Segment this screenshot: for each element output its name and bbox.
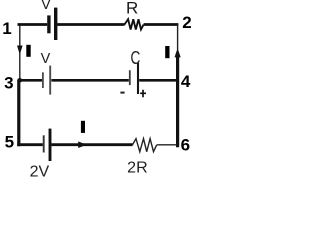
resistor 2R zigzag	[132, 139, 156, 152]
svg-text:C: C	[131, 48, 141, 68]
wire top-right segment	[144, 23, 179, 26]
battery 2V left short plate	[43, 135, 45, 152]
svg-text:5: 5	[5, 133, 14, 152]
wire middle-right segment	[139, 79, 176, 82]
label I (left)	[26, 45, 30, 57]
capacitor minus sign	[120, 92, 124, 94]
svg-text:V: V	[41, 51, 51, 67]
wire right thin vertical (node2 down)	[177, 25, 179, 50]
wire bottom-middle segment	[52, 143, 133, 146]
svg-text:4: 4	[181, 72, 191, 91]
svg-text:R: R	[126, 0, 138, 18]
current arrow I (bottom, right)	[78, 141, 86, 148]
wire middle-center segment	[51, 79, 128, 82]
capacitor C left plate	[129, 70, 131, 85]
svg-text:2V: 2V	[30, 163, 50, 179]
wire top-middle segment	[57, 23, 124, 26]
capacitor plus sign	[140, 90, 146, 98]
wire middle-left segment	[19, 79, 42, 82]
current arrow I (right, up)	[175, 48, 181, 57]
capacitor C right plate	[137, 63, 139, 94]
svg-text:6: 6	[181, 135, 190, 154]
battery V (middle) right tall plate	[49, 66, 51, 95]
current arrow I (left, down)	[17, 46, 23, 55]
svg-text:3: 3	[4, 74, 13, 93]
svg-text:1: 1	[2, 19, 11, 38]
wire right thick vertical (arrow to node6)	[176, 57, 179, 148]
label I (bottom)	[81, 121, 85, 133]
svg-text:2: 2	[182, 13, 191, 32]
wire bottom-right segment	[157, 144, 177, 146]
battery V (top) left short plate	[47, 15, 50, 33]
label I (right)	[165, 46, 169, 58]
node 3 junction dot	[18, 78, 23, 83]
wire left thin vertical (node1 to node3)	[19, 26, 21, 80]
wire left thick vertical (node3 to node5)	[17, 80, 20, 147]
battery 2V right tall plate	[49, 129, 52, 161]
wire bottom-left segment	[17, 143, 43, 146]
battery V (middle) left short plate	[42, 72, 44, 88]
wire top-left segment	[18, 23, 48, 26]
resistor R zigzag	[124, 19, 143, 29]
svg-text:2R: 2R	[127, 159, 147, 176]
svg-text:V: V	[41, 0, 51, 13]
battery V (top) right tall plate	[54, 8, 57, 40]
